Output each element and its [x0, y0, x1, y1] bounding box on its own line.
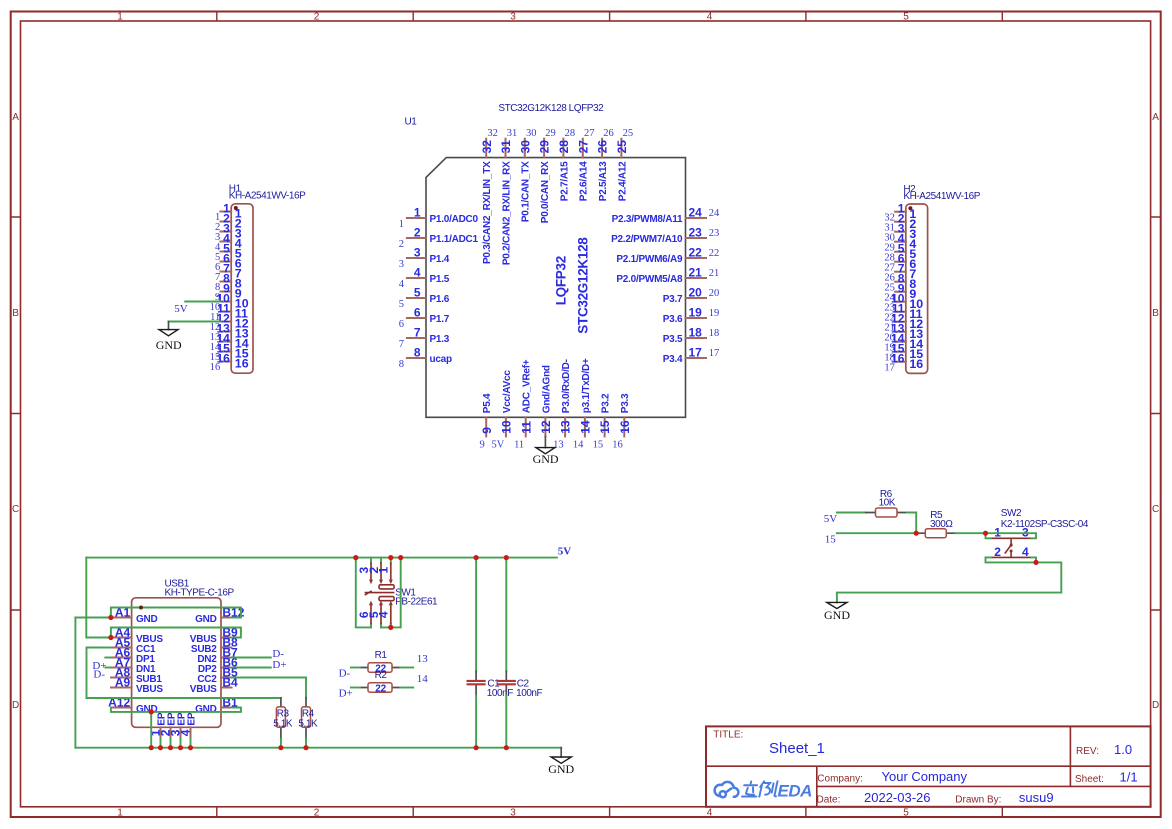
svg-text:11: 11: [519, 421, 533, 434]
svg-text:GND: GND: [195, 704, 217, 715]
connector USB1 pin B8 (SUB2): [191, 636, 238, 655]
chip U1 pin 22 (P2.1/PWM6/A9) right: [616, 245, 719, 265]
svg-text:VBUS: VBUS: [190, 684, 217, 695]
wire ground bus: [75, 747, 561, 749]
svg-text:5V: 5V: [492, 439, 505, 450]
resistor R3 5.1K: [273, 698, 293, 739]
svg-text:8: 8: [399, 359, 404, 370]
connector H2 pin 8: [884, 272, 916, 294]
svg-text:D: D: [12, 700, 19, 711]
junction R3 ground bus: [278, 745, 283, 750]
switch SW2 pins 2 and 4 bar: [991, 556, 1032, 558]
switch SW2 pins 1 and 3 bar: [991, 538, 1032, 544]
svg-text:3: 3: [414, 245, 421, 259]
connector USB1 pin-1 marker dot: [139, 606, 143, 610]
svg-text:2: 2: [314, 12, 320, 23]
svg-text:16: 16: [618, 420, 632, 434]
svg-text:5V: 5V: [558, 546, 572, 558]
wire R5 to SW2: [956, 532, 986, 534]
svg-text:p3.1/TxD/D+: p3.1/TxD/D+: [581, 358, 592, 413]
svg-text:20: 20: [689, 285, 703, 299]
chip U1 pin 20 (P3.7) right: [663, 285, 720, 305]
switch SW1 contact bars: [379, 585, 394, 589]
svg-text:GND: GND: [533, 452, 559, 466]
connector H1 pin 5: [215, 242, 242, 264]
junction R6-R5: [914, 531, 919, 536]
svg-text:9: 9: [480, 427, 494, 434]
svg-text:C: C: [1152, 504, 1159, 515]
svg-text:17: 17: [689, 345, 703, 359]
svg-text:21: 21: [709, 268, 720, 279]
wire 5V to R6: [837, 512, 866, 514]
svg-text:4: 4: [707, 12, 713, 23]
svg-text:D-: D-: [339, 667, 351, 679]
svg-text:P2.1/PWM6/A9: P2.1/PWM6/A9: [616, 254, 683, 265]
wire H1 pin12 to ground: [169, 321, 221, 323]
wire SW2 pin1 connection: [986, 533, 991, 538]
chip U1 pin 29 (P0.0/CAN_RX) top: [538, 128, 556, 223]
svg-text:P2.7/A15: P2.7/A15: [559, 161, 570, 201]
svg-text:P2.3/PWM8/A11: P2.3/PWM8/A11: [612, 214, 683, 225]
connector H2 pin 7: [884, 262, 916, 284]
svg-text:30: 30: [526, 128, 537, 139]
chip U1 pin 15 (P3.2) bottom: [598, 393, 612, 436]
svg-text:8: 8: [414, 345, 421, 359]
svg-text:1: 1: [414, 205, 421, 219]
svg-text:18: 18: [709, 328, 720, 339]
svg-text:Date:: Date:: [817, 795, 841, 806]
connector H2 pin 15: [884, 342, 923, 364]
connector USB1 pin B9 (VBUS): [190, 626, 238, 645]
chip U1 body outline: [426, 158, 686, 418]
connector USB1 pin B6 (DP2): [198, 656, 238, 675]
connector H1 body outline: [231, 204, 253, 373]
svg-text:15: 15: [598, 420, 612, 434]
svg-text:22: 22: [689, 245, 703, 259]
junction C1 ground bus: [474, 745, 479, 750]
connector USB1 pin A4 (VBUS): [111, 626, 163, 645]
svg-text:1: 1: [399, 219, 404, 230]
svg-text:R2: R2: [375, 670, 388, 681]
svg-text:5.1K: 5.1K: [273, 718, 293, 729]
chip U1 pin 14 (p3.1/TxD/D+) bottom: [579, 358, 593, 436]
svg-text:18: 18: [689, 325, 703, 339]
capacitor C2 100nF: [497, 558, 543, 699]
svg-text:KH-TYPE-C-16P: KH-TYPE-C-16P: [165, 587, 235, 598]
connector H2 pin 12: [884, 312, 923, 334]
svg-text:susu9: susu9: [1019, 790, 1054, 805]
svg-text:P2.2/PWM7/A10: P2.2/PWM7/A10: [611, 234, 683, 245]
svg-text:TITLE:: TITLE:: [713, 729, 743, 740]
chip U1 pin 12 (Gnd/AGnd) bottom: [539, 365, 553, 436]
switch SW2 actuator contact: [1005, 544, 1011, 553]
svg-text:4: 4: [377, 611, 391, 618]
svg-text:20: 20: [709, 288, 720, 299]
svg-text:SW2: SW2: [1001, 508, 1022, 519]
svg-text:13: 13: [553, 439, 564, 450]
junction SW1 left on 5V bus: [353, 555, 358, 560]
wire R2 right: [400, 687, 413, 689]
svg-text:29: 29: [545, 128, 556, 139]
svg-text:5: 5: [903, 807, 909, 818]
connector H2 pin 4: [884, 232, 916, 254]
connector USB1 pin A1 (GND): [111, 606, 158, 625]
junction EP ground bus: [188, 745, 193, 750]
chip U1 pin 21 (P2.0/PWM5/A8) right: [616, 265, 719, 285]
svg-text:P3.2: P3.2: [601, 393, 612, 413]
svg-text:A: A: [1152, 112, 1159, 123]
connector H1 pin 9: [215, 282, 242, 304]
resistor R2 22: [360, 670, 401, 695]
svg-text:3: 3: [399, 259, 404, 270]
wire SW1 left loop to pin 6: [356, 558, 371, 628]
svg-text:Sheet_1: Sheet_1: [769, 740, 825, 757]
svg-text:P0.3/CAN2_RX/LIN_TX: P0.3/CAN2_RX/LIN_TX: [482, 161, 493, 264]
connector H2 pin 3: [884, 222, 916, 244]
junction EP ground bus: [158, 745, 163, 750]
wire C2 to ground bus: [505, 695, 507, 747]
svg-text:13: 13: [417, 653, 429, 665]
connector USB1 body outline: [132, 598, 221, 728]
svg-text:A9: A9: [115, 676, 131, 690]
connector H1 pin 12: [210, 312, 249, 334]
svg-text:P1.1/ADC1: P1.1/ADC1: [430, 234, 479, 245]
svg-text:17: 17: [709, 348, 720, 359]
wire GND loop A12-B1: [111, 708, 241, 712]
svg-text:24: 24: [709, 208, 720, 219]
connector H1 pin 16: [210, 352, 249, 374]
svg-text:P3.3: P3.3: [620, 393, 631, 413]
wire R4 to ground bus: [305, 739, 307, 748]
svg-text:KH-A2541WV-16P: KH-A2541WV-16P: [903, 191, 980, 202]
wire EP pin to ground bus: [160, 739, 162, 748]
wire C1 to ground bus: [475, 695, 477, 747]
switch SW1 actuator arm: [365, 591, 393, 594]
resistor R6 10K: [866, 489, 907, 517]
chip U1 pin 9 (P5.4) bottom: [480, 393, 494, 436]
chip U1 pin 3 (P1.4) left: [399, 245, 450, 269]
svg-text:10K: 10K: [879, 498, 896, 509]
wire EP pin to ground bus: [170, 739, 172, 748]
svg-text:300Ω: 300Ω: [930, 519, 953, 530]
connector H1 pin-1 marker dot: [234, 206, 238, 210]
connector H1 pin 11: [210, 302, 248, 324]
chip U1 pin 16 (P3.3) bottom: [618, 393, 632, 436]
svg-text:REV:: REV:: [1076, 746, 1099, 757]
chip U1 pin 11 (ADC_VRef+) bottom: [519, 359, 533, 436]
svg-text:32: 32: [480, 140, 494, 154]
wire B6 DP2 net D+: [232, 667, 271, 669]
chip U1 pin 7 (P1.3) left: [399, 325, 450, 349]
wire 5V down to A4 and loop A4-B9: [86, 558, 241, 638]
frame column ticks bottom: [217, 807, 1003, 817]
svg-text:GND: GND: [548, 762, 574, 776]
switch SW1 pin 6: [357, 601, 373, 628]
svg-text:28: 28: [565, 128, 576, 139]
wire SW2 pin2-pin4 to ground: [837, 557, 1061, 602]
connector H1 pin 15: [210, 342, 249, 364]
connector H2 pin 9: [884, 282, 916, 304]
connector H1 pin 7: [215, 262, 242, 284]
svg-text:1: 1: [117, 807, 123, 818]
chip U1 pin 19 (P3.6) right: [663, 305, 720, 325]
wire 5V bus: [86, 557, 557, 559]
connector USB1 pin B7 (DN2): [197, 646, 238, 665]
connector H1 pin 13: [210, 322, 249, 344]
svg-text:4: 4: [178, 729, 192, 736]
connector USB1 pin A5 (CC1): [111, 636, 156, 655]
svg-text:29: 29: [538, 140, 552, 154]
chip U1 pin 32 (P0.3/CAN2_RX/LIN_TX) top: [480, 128, 498, 264]
svg-text:2: 2: [994, 545, 1001, 559]
svg-text:GND: GND: [824, 608, 850, 622]
svg-text:C: C: [12, 504, 19, 515]
wire EP pin to ground bus: [180, 739, 182, 748]
svg-text:P3.7: P3.7: [663, 294, 683, 305]
svg-text:19: 19: [689, 305, 703, 319]
svg-text:GND: GND: [136, 704, 158, 715]
junction R4 ground bus: [303, 745, 308, 750]
svg-text:D+: D+: [272, 659, 286, 671]
svg-text:ucap: ucap: [430, 354, 452, 365]
svg-text:LQFP32: LQFP32: [554, 256, 569, 305]
ground symbol at ground bus: [548, 748, 574, 776]
connector H2 pin 5: [884, 242, 916, 264]
wire SW2 pin3 connection: [986, 533, 1037, 538]
switch SW1 pin 1: [377, 558, 393, 585]
svg-text:16: 16: [210, 362, 221, 373]
svg-text:P0.0/CAN_RX: P0.0/CAN_RX: [540, 161, 551, 223]
svg-text:11: 11: [514, 439, 524, 450]
junction EP ground bus: [178, 745, 183, 750]
wire EP pin to ground bus: [190, 739, 192, 748]
capacitor C1 100nF: [467, 558, 514, 699]
svg-text:24: 24: [689, 205, 703, 219]
resistor R4 5.1K: [298, 698, 318, 739]
connector H2 pin 13: [884, 322, 923, 344]
junction SW2 pin4 wire: [1033, 560, 1038, 565]
connector H2 pin 6: [884, 252, 916, 274]
connector USB1 pin A8 (SUB1): [111, 666, 162, 685]
junction at SW2 pin1: [983, 531, 988, 536]
svg-text:27: 27: [576, 140, 590, 154]
connector USB1 pin A12 (GND): [108, 696, 157, 715]
frame row ticks right: [1151, 217, 1161, 610]
svg-text:22: 22: [375, 684, 386, 695]
junction SW1 pin1 on 5V bus: [388, 555, 393, 560]
connector H2 pin 2: [884, 212, 916, 234]
connector H1 pin 2: [215, 212, 242, 234]
junction C2 5V bus: [504, 555, 509, 560]
junction at USB1 A4: [108, 635, 113, 640]
chip U1 pin 23 (P2.2/PWM7/A10) right: [611, 225, 719, 245]
svg-text:4: 4: [1022, 545, 1029, 559]
chip U1 pin 1 (P1.0/ADC0) left: [399, 205, 479, 229]
svg-text:Your Company: Your Company: [882, 769, 968, 784]
connector USB1 pin B5 (CC2): [197, 666, 238, 685]
svg-text:Vcc/AVcc: Vcc/AVcc: [502, 370, 513, 414]
svg-text:KH-A2541WV-16P: KH-A2541WV-16P: [229, 191, 306, 202]
chip U1 pin 6 (P1.7) left: [399, 305, 450, 329]
chip U1 pin 31 (P0.2/CAN2_RX/LIN_RX) top: [499, 128, 517, 265]
svg-text:5: 5: [414, 285, 421, 299]
svg-text:31: 31: [507, 128, 518, 139]
svg-text:D: D: [1152, 700, 1159, 711]
svg-text:14: 14: [579, 420, 593, 434]
svg-text:D-: D-: [93, 669, 105, 681]
frame column ticks top: [217, 12, 1003, 22]
svg-text:28: 28: [557, 140, 571, 154]
svg-text:VBUS: VBUS: [136, 684, 163, 695]
svg-text:STC32G12K128 LQFP32: STC32G12K128 LQFP32: [498, 103, 604, 114]
svg-text:2: 2: [314, 807, 320, 818]
svg-text:P3.0/RxD/D-: P3.0/RxD/D-: [561, 359, 572, 413]
svg-text:D-: D-: [272, 648, 284, 660]
svg-text:14: 14: [573, 439, 584, 450]
svg-text:U1: U1: [405, 116, 418, 127]
connector H2 pin-1 marker dot: [908, 206, 912, 210]
connector H1 pin 4: [215, 232, 242, 254]
chip U1 pin 24 (P2.3/PWM8/A11) right: [612, 205, 720, 225]
svg-text:31: 31: [499, 140, 513, 154]
ground symbol at SW2: [824, 602, 850, 622]
svg-text:14: 14: [417, 673, 429, 685]
chip U1 pin 4 (P1.5) left: [399, 265, 450, 289]
svg-text:3: 3: [510, 12, 516, 23]
svg-text:P2.5/A13: P2.5/A13: [598, 161, 609, 201]
svg-text:4: 4: [707, 807, 713, 818]
junction at USB1 A1: [108, 615, 113, 620]
svg-text:P1.3: P1.3: [430, 334, 450, 345]
svg-text:4: 4: [399, 279, 405, 290]
wire D- stub at A7: [105, 667, 111, 669]
connector USB1 pin A6 (DP1): [111, 646, 155, 665]
svg-text:5: 5: [903, 12, 909, 23]
svg-text:32: 32: [487, 128, 498, 139]
wire D+ stub at A6: [105, 657, 111, 659]
svg-text:1: 1: [117, 12, 123, 23]
svg-text:P3.4: P3.4: [663, 354, 683, 365]
svg-text:P2.4/A12: P2.4/A12: [617, 161, 628, 201]
chip U1 pin 5 (P1.6) left: [399, 285, 450, 309]
connector H1 pin 8: [215, 272, 242, 294]
wire SW1 right loop to pins 4-5: [381, 558, 401, 628]
chip U1 pin 17 (P3.4) right: [663, 345, 720, 365]
svg-text:1.0: 1.0: [1114, 742, 1132, 757]
svg-text:P3.6: P3.6: [663, 314, 683, 325]
chip U1 pin 13 (P3.0/RxD/D-) bottom: [559, 359, 573, 436]
svg-text:P1.5: P1.5: [430, 274, 450, 285]
chip U1 pin 27 (P2.6/A14) top: [576, 128, 594, 201]
connector H2 pin 1: [884, 202, 916, 224]
chip U1 pin 26 (P2.5/A13) top: [596, 128, 614, 201]
switch SW1 pin 2: [367, 558, 383, 585]
connector H2 pin 11: [884, 302, 922, 324]
svg-text:12: 12: [539, 420, 553, 434]
svg-text:5: 5: [399, 299, 404, 310]
connector USB1 EP pin 1: [148, 712, 167, 739]
svg-text:2: 2: [414, 225, 421, 239]
svg-text:1/1: 1/1: [1120, 770, 1138, 785]
svg-text:25: 25: [623, 128, 634, 139]
svg-text:26: 26: [603, 128, 614, 139]
svg-text:16: 16: [612, 439, 623, 450]
svg-text:19: 19: [709, 308, 720, 319]
junction C1 5V bus: [474, 555, 479, 560]
connector H2 pin 16: [884, 352, 923, 374]
svg-text:26: 26: [596, 140, 610, 154]
svg-text:P2.0/PWM5/A8: P2.0/PWM5/A8: [616, 274, 683, 285]
svg-text:22: 22: [709, 248, 720, 259]
connector H1 pin 14: [210, 332, 249, 354]
connector H2 pin 14: [884, 332, 923, 354]
wire B7 DN2 net D-: [232, 657, 271, 659]
svg-text:R1: R1: [375, 650, 388, 661]
svg-text:B: B: [12, 308, 19, 319]
svg-text:10: 10: [500, 420, 514, 434]
connector H1 pin 10: [210, 292, 249, 314]
svg-text:2022-03-26: 2022-03-26: [864, 790, 931, 805]
chip U1 pin 10 (Vcc/AVcc) bottom: [500, 370, 514, 437]
svg-text:100nF: 100nF: [516, 688, 542, 699]
svg-text:5V: 5V: [174, 303, 188, 315]
svg-text:EDA: EDA: [778, 781, 813, 800]
chip U1 pin 30 (P0.1/CAN_TX) top: [518, 128, 536, 222]
frame row ticks left: [11, 217, 21, 610]
connector USB1 pin B4 (VBUS): [190, 676, 238, 695]
chip U1 pin 28 (P2.7/A15) top: [557, 128, 575, 201]
resistor R1 22: [360, 650, 401, 675]
connector USB1 EP pin 4: [178, 712, 197, 739]
svg-text:K2-1102SP-C3SC-04: K2-1102SP-C3SC-04: [1001, 519, 1089, 530]
junction SW1 pin4 bottom: [388, 625, 393, 630]
wire R3 to ground bus: [280, 739, 282, 748]
wire R2 left: [351, 687, 360, 689]
svg-text:4: 4: [414, 265, 421, 279]
svg-text:5.1K: 5.1K: [298, 718, 318, 729]
svg-text:25: 25: [615, 140, 629, 154]
junction EP ground bus: [168, 745, 173, 750]
svg-text:17: 17: [884, 362, 895, 373]
svg-text:3: 3: [510, 807, 516, 818]
wire R6 to junction: [907, 513, 916, 534]
connector USB1 EP pin 3: [168, 712, 187, 739]
wire R1 left: [351, 667, 360, 669]
LCEDA logo cloud icon: [715, 782, 739, 797]
svg-text:15: 15: [593, 439, 604, 450]
svg-text:23: 23: [709, 228, 720, 239]
svg-text:P0.1/CAN_TX: P0.1/CAN_TX: [521, 161, 532, 222]
svg-text:21: 21: [689, 265, 703, 279]
svg-text:Company:: Company:: [817, 773, 863, 784]
wire B5 CC2 to R4: [232, 678, 307, 698]
svg-text:15: 15: [825, 534, 837, 546]
chip U1 pin 2 (P1.1/ADC1) left: [399, 225, 479, 249]
connector H1 pin 6: [215, 252, 242, 274]
connector USB1 EP pin 2: [158, 712, 177, 739]
chip U1 pin 8 (ucap) left: [399, 345, 452, 369]
svg-text:P2.6/A14: P2.6/A14: [579, 161, 590, 201]
title block outline: [706, 726, 1151, 806]
wire R1 right: [400, 667, 413, 669]
svg-text:Drawn By:: Drawn By:: [955, 795, 1001, 806]
svg-text:STC32G12K128: STC32G12K128: [576, 237, 591, 334]
ground symbol at H1: [156, 322, 182, 352]
connector USB1 pin A9 (VBUS): [111, 676, 163, 695]
wire GND loop A1-B12: [75, 608, 241, 618]
connector H2 pin 10: [884, 292, 923, 314]
svg-text:5V: 5V: [824, 513, 838, 525]
